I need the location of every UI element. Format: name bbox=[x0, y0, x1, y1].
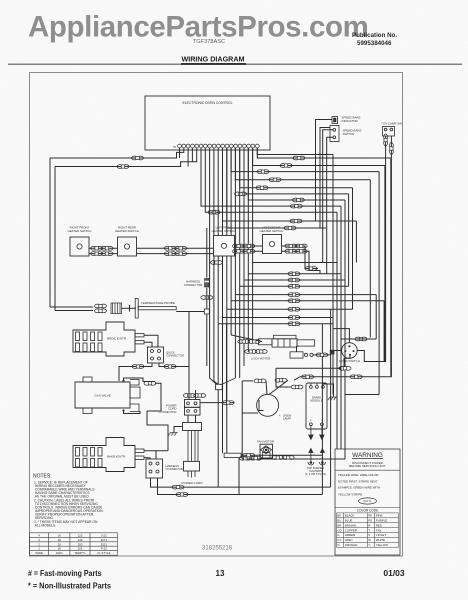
oven lamp switch pin 1 bbox=[384, 128, 387, 131]
wire lamp left drop bbox=[241, 381, 243, 459]
spark module electrode 1 bbox=[309, 426, 313, 440]
probe mount cross bbox=[129, 305, 131, 312]
wire power drop x322 upper bbox=[321, 324, 323, 455]
wire lf drop to bus 2 bbox=[309, 262, 320, 274]
oven lamp filament bbox=[259, 400, 264, 411]
header rule bbox=[8, 63, 462, 65]
wire EOC pin to bus row 8 bbox=[201, 148, 341, 206]
connector below door switch bbox=[350, 375, 362, 379]
right front heater switch body bbox=[70, 237, 89, 256]
connector valve top bbox=[144, 381, 156, 385]
warning title underline bbox=[352, 458, 383, 460]
wire EOC pin 19 feed bbox=[257, 148, 333, 155]
spark module pin GND bbox=[322, 386, 325, 389]
wire EOC pin drop center 8 bbox=[230, 148, 232, 301]
wire gauge table grid bbox=[30, 533, 118, 555]
connector on lamp switch wire 2 bbox=[390, 143, 394, 155]
gas valve bottom tab bbox=[83, 408, 92, 414]
wire lf switch out upper bbox=[282, 246, 306, 255]
connector on lamp switch wire 1 bbox=[384, 134, 388, 146]
wire lamp diag 1 bbox=[266, 381, 267, 395]
gas valve top tab bbox=[83, 377, 92, 382]
wire speed bake aux feed bbox=[320, 128, 330, 229]
connector on bus row 3 bbox=[257, 170, 269, 174]
wire lr-lf switch link lower bbox=[235, 250, 263, 252]
connector mid bus row 3 bbox=[288, 278, 300, 282]
left rear heater switch actuator bbox=[221, 243, 226, 248]
wire broil connector out right bbox=[159, 363, 189, 367]
wire spark module feed bbox=[276, 368, 291, 387]
connector bake out left bbox=[172, 485, 184, 489]
speed bake switch bbox=[330, 126, 339, 142]
wire door sw bottom run bbox=[276, 367, 338, 369]
junction block square bbox=[204, 309, 209, 314]
wire lock feed diagonal bbox=[231, 335, 262, 342]
connector mid bus row 7 bbox=[288, 307, 300, 311]
wire power bus stub b bbox=[238, 458, 240, 495]
spark module pin L1 bbox=[310, 386, 313, 389]
left rear heater switch body bbox=[214, 236, 235, 257]
wire lock switch out bbox=[313, 354, 330, 356]
wire junction down bbox=[206, 314, 208, 366]
power cord connector lower bbox=[185, 407, 201, 415]
wire speed bake switch pin1 lead bbox=[323, 130, 333, 263]
wire EOC pin 1 stub bbox=[179, 148, 181, 158]
diagram border frame bbox=[30, 73, 403, 557]
wire mid bus row 6 bbox=[231, 300, 384, 302]
connector pair lf out lower bbox=[285, 249, 307, 253]
bake igniter pin 1 bbox=[135, 449, 144, 452]
thermal fuse bbox=[111, 303, 122, 314]
wire power conn feed a bbox=[188, 312, 190, 400]
oven lamp bulb bbox=[257, 394, 279, 416]
gas valve body bbox=[75, 382, 130, 408]
wire probe feed upper bbox=[50, 306, 93, 308]
fan aux junction box bbox=[224, 453, 241, 457]
connector on bus row 9 bbox=[208, 210, 220, 214]
spark module body bbox=[306, 383, 327, 429]
wire mid row5 drop right bbox=[375, 295, 377, 339]
connector pair rr-lr lower bbox=[164, 252, 186, 256]
bake igniter pin 2 bbox=[135, 456, 144, 459]
connector fan aux bbox=[243, 453, 255, 457]
wire riser x341 to warning box bbox=[340, 206, 342, 449]
top burner igniter electrode 1 bbox=[308, 449, 314, 466]
power cord connector upper bbox=[185, 400, 201, 408]
connector mid bus row 2 bbox=[288, 272, 300, 276]
wire power conn right feed bbox=[200, 402, 234, 404]
color code table grid bbox=[337, 513, 399, 547]
lock switch box bbox=[290, 352, 313, 358]
wire riser x337 to warning box bbox=[336, 212, 338, 449]
spark module out 2 bbox=[321, 423, 324, 426]
bake harness connector bbox=[146, 459, 163, 478]
wire door sw bottom lead bbox=[344, 355, 350, 367]
broil connector pin d bbox=[158, 357, 161, 360]
connector door switch top bbox=[355, 337, 367, 341]
wire broil pin1 to connector bbox=[144, 335, 158, 347]
connector on bus row 1 bbox=[293, 156, 305, 160]
lock motor stack bbox=[259, 335, 315, 347]
connector lamp top 1 bbox=[254, 379, 266, 383]
wire EOC pin to bus row 7 bbox=[248, 148, 345, 200]
broil connector pin a bbox=[151, 350, 154, 353]
wire lf switch out lower bbox=[282, 251, 310, 262]
bake igniter heater teeth bbox=[76, 448, 103, 468]
ground symbol power cord bbox=[168, 433, 177, 436]
connector left bus lower bbox=[117, 165, 129, 169]
wire valve top lead bbox=[124, 378, 156, 382]
wire EOC pin 8 bundle drop bbox=[210, 148, 217, 384]
connector broil out left bbox=[132, 365, 144, 369]
centre bundle junction box bbox=[216, 384, 223, 389]
connector pair fan right bbox=[272, 456, 294, 460]
wire fan bus bbox=[242, 458, 345, 460]
gas valve terminal bottom bbox=[122, 409, 124, 411]
connector mid bus row 9 bbox=[288, 322, 300, 326]
wire EOC pin drop center 3 bbox=[252, 148, 254, 263]
connector pair rr-lr upper bbox=[164, 246, 186, 250]
wire EOC pin drop center 11 bbox=[217, 148, 219, 324]
connector mid bus row 1 bbox=[211, 261, 223, 265]
door switch pin bottom bbox=[349, 354, 351, 356]
connector on bus row 8 bbox=[290, 204, 302, 208]
spark module pin L1 stub bbox=[310, 383, 312, 386]
connector door bus to lamp bbox=[302, 375, 314, 379]
wire riser x379 to fan riser link bbox=[378, 172, 380, 395]
connector on bus row 6 bbox=[235, 192, 247, 196]
ground symbol spark module bbox=[328, 397, 337, 400]
connector pair rf-rr lower bbox=[91, 252, 113, 256]
wire EOC pin 4 stub bbox=[191, 148, 193, 162]
connector pair lock feed bbox=[238, 340, 260, 344]
connector probe lower bbox=[95, 309, 107, 313]
connector center bus y228 bbox=[284, 226, 296, 230]
wire EOC pin 2 run left bbox=[50, 148, 184, 158]
spark module pin N bbox=[316, 386, 319, 389]
broil connector pin b bbox=[158, 350, 161, 353]
wire riser x356 centre bus drop bbox=[355, 221, 357, 263]
wire rr-lr switch link upper bbox=[137, 247, 214, 249]
wire fan bus drop to power bus bbox=[330, 459, 332, 487]
right rear heater switch actuator bbox=[124, 244, 129, 249]
wire EOC pin 5 run left bbox=[55, 148, 197, 167]
power connector pin 1 bbox=[187, 402, 190, 405]
wire power conn drop b bbox=[195, 415, 197, 422]
wire mid bus drop 4 bbox=[239, 286, 241, 378]
title underline bbox=[181, 63, 246, 65]
connector mid bus row 6 bbox=[288, 299, 300, 303]
broil igniter pin 1 bbox=[135, 334, 144, 337]
wire power conn drop a bbox=[187, 415, 189, 422]
door switch pin left bbox=[344, 350, 346, 352]
wire lamp top leads bbox=[242, 380, 253, 382]
connector pair lf out bbox=[285, 244, 307, 248]
connector pair rf-rr upper bbox=[91, 246, 113, 250]
power connector pin 3 bbox=[187, 410, 190, 413]
connector mid bus row 5 bbox=[288, 293, 300, 297]
electronic oven control EOC box bbox=[145, 96, 270, 150]
connector on bus row 5 bbox=[256, 186, 268, 190]
wire bake connector out right bbox=[158, 478, 323, 495]
wire mid bus drop 8 bbox=[222, 318, 224, 454]
warning divider 2 bbox=[335, 507, 400, 509]
warning box frame bbox=[335, 449, 400, 555]
wire EOC pin drop center 4 bbox=[247, 148, 249, 274]
wire fuse to probe bbox=[122, 307, 137, 309]
wire mid fuse riser bbox=[206, 228, 208, 278]
left front heater switch body bbox=[263, 235, 282, 254]
broil igniter body outline bbox=[73, 322, 135, 356]
wire left riser A bbox=[49, 158, 51, 307]
wire EOC pin drop center 6 bbox=[239, 148, 241, 286]
wire EOC pin to bus row 4 bbox=[235, 148, 370, 180]
wire valve loop right bbox=[147, 383, 161, 411]
wire power drop x330 upper bbox=[330, 309, 332, 459]
connector pair fan left bbox=[239, 456, 261, 460]
power cord conductors bbox=[188, 431, 198, 462]
door switch pin top bbox=[348, 345, 350, 347]
fan motor body bbox=[260, 444, 273, 458]
wire center bus y228 bbox=[227, 227, 326, 229]
wire EOC pin to bus row 6 bbox=[244, 148, 349, 194]
wire bake pin2 lead bbox=[144, 458, 150, 459]
wire EOC pin to bus row 9 bbox=[205, 148, 337, 212]
wire lamp down lead bbox=[242, 412, 258, 414]
wire EOC pin drop center 5 bbox=[243, 148, 245, 280]
door switch terminal block bbox=[330, 350, 335, 355]
wire EOC pin 3 stub bbox=[187, 148, 189, 167]
wire EOC pin drop center 1 bbox=[222, 148, 224, 221]
wire power bus stub a bbox=[217, 458, 219, 488]
bake connector pin b bbox=[156, 462, 159, 465]
gas valve right bracket bbox=[130, 380, 139, 412]
wire riser x345 long to fan bus bbox=[344, 200, 346, 459]
wire mid row6 drop right bbox=[383, 301, 385, 362]
wire junction riser bbox=[226, 324, 228, 403]
wire broil pin2 to connector bbox=[144, 342, 152, 347]
wire mid bus row 5 bbox=[235, 294, 376, 296]
connector spark module feed bbox=[291, 385, 303, 389]
wire door sw top lead bbox=[333, 324, 349, 343]
connector pair lr-lf upper bbox=[233, 244, 255, 248]
speed bake switch pin 2 bbox=[333, 136, 336, 139]
wire rf-rr switch link lower bbox=[89, 253, 118, 255]
wire mid bus row 9 bbox=[218, 323, 333, 325]
wire broil connector out left bbox=[119, 363, 152, 381]
connector vertical mid bbox=[201, 296, 213, 300]
gas valve coil box bbox=[130, 387, 140, 398]
oven lamp switch body bbox=[383, 127, 395, 137]
wire lr-lf switch link upper bbox=[235, 245, 263, 247]
wire bake connector out left bbox=[151, 478, 331, 487]
power cord strain relief bbox=[183, 423, 202, 431]
wire spark gnd lead bbox=[323, 384, 334, 397]
bake connector pin d bbox=[156, 470, 159, 473]
oven temperature probe flange bbox=[135, 299, 138, 319]
connector on bus row 4 bbox=[269, 178, 281, 182]
inline fuse vertical bbox=[205, 279, 209, 288]
wire power conn feed b bbox=[195, 390, 197, 400]
fan motor symbol bbox=[261, 446, 272, 458]
wire lf drop to bus bbox=[305, 255, 318, 269]
wire mid bus drop 9 bbox=[217, 324, 219, 458]
wire EOC pin 9 bundle drop bbox=[214, 148, 218, 384]
connector pair above power connector bbox=[183, 394, 205, 398]
wire valve bottom lead bbox=[124, 411, 141, 414]
wire riser x385 merge lamp sw 1 bbox=[384, 166, 386, 362]
connector door switch bottom arrow bbox=[338, 366, 352, 370]
broil connector pin c bbox=[151, 357, 154, 360]
left front heater switch actuator bbox=[269, 241, 274, 246]
wire mid bus row 2 bbox=[248, 273, 341, 275]
wire mid bus row 7 bbox=[227, 308, 353, 310]
wire EOC pin to bus row 1 bbox=[257, 148, 391, 158]
wire riser x391 merge lamp sw 2 bbox=[390, 158, 392, 376]
wire mid bus drop 3 bbox=[243, 280, 245, 366]
wire lamp diag 2 bbox=[269, 380, 288, 394]
wire mid bus row 8 bbox=[223, 317, 334, 319]
bake connector pin c bbox=[149, 470, 152, 473]
wire mid bus drop 7 bbox=[226, 309, 228, 453]
connector mid bus row 8 bbox=[288, 316, 300, 320]
wire door sw top bus bbox=[341, 338, 376, 340]
EOC terminal strip P1 pins 1-19 bbox=[178, 144, 260, 148]
wire mid bus row 1 bbox=[253, 262, 337, 264]
speed bake indicator bbox=[332, 117, 338, 124]
wire mid bus drop 6 bbox=[230, 301, 232, 335]
wire riser x349 to mid row4 bbox=[348, 194, 350, 286]
spark module out 1 bbox=[310, 423, 313, 426]
wire riser x379 to x345 link bbox=[345, 394, 379, 396]
wire mid bus row 3 bbox=[244, 279, 345, 281]
wire speed bake indicator feed bbox=[316, 120, 333, 222]
wire riser x333 long bbox=[332, 155, 334, 395]
wire fan aux run bbox=[241, 454, 322, 456]
wire EOC pin drop center 2 bbox=[226, 148, 228, 228]
wire bake pin1 drop bbox=[155, 451, 157, 459]
top burner igniter electrode 2 bbox=[319, 449, 325, 466]
connector mid bus row 4 bbox=[288, 284, 300, 288]
wire EOC pin to bus row 2 bbox=[253, 148, 385, 166]
connector probe upper bbox=[95, 304, 107, 308]
wire EOC pin to bus row 3 bbox=[231, 148, 379, 172]
power connector pin 2 bbox=[194, 402, 197, 405]
wire funnel diagonal a bbox=[222, 378, 236, 385]
door switch pin right bbox=[353, 350, 355, 352]
wire probe feed lower bbox=[55, 310, 93, 312]
wire rr-lr switch link lower bbox=[137, 253, 214, 255]
connector lf drop bbox=[305, 267, 317, 271]
connector pair lock lower bbox=[245, 350, 267, 354]
wire door sw left lead bbox=[333, 350, 342, 352]
broil igniter heater teeth bbox=[76, 332, 103, 352]
wire mid fuse lower bbox=[206, 288, 208, 309]
wire rf-rr switch link upper bbox=[89, 247, 118, 249]
door switch body bbox=[342, 343, 358, 359]
wire junction to probe row bbox=[176, 311, 204, 313]
right rear heater switch body bbox=[118, 237, 137, 256]
connector center bus y221 bbox=[290, 219, 302, 223]
wire left riser B bbox=[54, 167, 56, 311]
power cord tails bbox=[188, 471, 195, 478]
right front heater switch actuator bbox=[77, 244, 82, 249]
spark module pin N stub bbox=[316, 383, 318, 386]
wire mid bus row 4 bbox=[240, 285, 349, 287]
connector on bus row 7 bbox=[292, 198, 304, 202]
tracer example connector bbox=[359, 498, 377, 504]
wire lamp switch pin2 drop bbox=[300, 136, 391, 377]
bake connector pin a bbox=[149, 462, 152, 465]
power connector pin 4 bbox=[194, 410, 197, 413]
wire riser x370 to door sw oval bbox=[369, 180, 371, 338]
wire bake pin1 lead bbox=[144, 450, 168, 452]
wire valve to bake bbox=[147, 411, 168, 451]
power cord jacket bbox=[184, 461, 200, 471]
connector pair lr-lf lower bbox=[233, 249, 255, 253]
wire door bus into lamp bbox=[294, 377, 300, 380]
wire mid bus drop 1 bbox=[252, 263, 254, 342]
wire mid bus drop 5 bbox=[234, 295, 236, 378]
connector power feed junction bbox=[222, 401, 234, 405]
broil quick connector bbox=[148, 347, 164, 363]
wire lock motor jumper bbox=[296, 346, 298, 352]
wire riser x352 to mid row7 bbox=[352, 188, 354, 309]
wire EOC pin drop center 10 bbox=[222, 148, 224, 318]
spark module electrode 2 bbox=[320, 426, 324, 440]
wire strain relief ground lead bbox=[174, 427, 183, 433]
connector bake out right bbox=[176, 493, 188, 497]
wire EOC pin drop center 9 bbox=[226, 148, 228, 309]
broil igniter pin 2 bbox=[135, 341, 144, 344]
wire speed bake switch pin2 lead bbox=[327, 137, 333, 273]
connector lamp top 2 bbox=[275, 378, 287, 382]
oven lamp switch pin 2 bbox=[390, 128, 393, 131]
wire center bus y221 bbox=[223, 220, 357, 222]
speed bake switch pin 1 bbox=[333, 128, 336, 131]
bake igniter body outline bbox=[73, 438, 135, 472]
warning divider 1 bbox=[335, 469, 400, 471]
connector left bus upper bbox=[132, 156, 144, 160]
wire EOC pin drop center 7 bbox=[234, 148, 236, 295]
oven temperature probe rod bbox=[138, 307, 176, 310]
wire fan aux drop bbox=[321, 455, 323, 494]
wire lamp switch pin1 drop bbox=[357, 136, 385, 362]
wire EOC pin to bus row 5 bbox=[240, 148, 353, 188]
gas valve terminal top bbox=[122, 380, 124, 382]
connector on bus row 2 bbox=[280, 164, 292, 168]
connector lock switch out bbox=[316, 353, 328, 357]
wire mid bus drop 2 bbox=[247, 274, 249, 352]
connector broil out right bbox=[164, 365, 176, 369]
